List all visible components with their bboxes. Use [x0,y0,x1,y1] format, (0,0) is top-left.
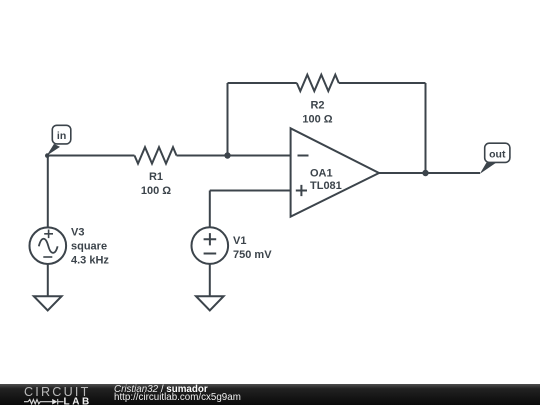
wire: V1 top vertical [209,191,211,228]
svg-text:100 Ω: 100 Ω [302,114,332,126]
source V1 plus polarity mark [204,233,217,245]
wire: non-inverting input horizontal from V1 top corner [210,190,291,192]
svg-text:R2: R2 [310,100,324,112]
wire: V3 bottom to ground [47,264,49,296]
source V1 circle body [192,227,229,264]
svg-text:square: square [71,241,107,253]
node A: junction of R1, op-amp inverting input and feedback [224,152,230,158]
wire: feedback top, left segment to R2 [228,82,297,84]
footer url line [114,393,241,403]
wire: R1 right to op-amp inverting input [177,155,291,157]
wire: input net, in flag anchor to R1 left [48,155,135,157]
svg-text:100 Ω: 100 Ω [141,185,171,197]
source V3 sine wave symbol [39,239,58,253]
svg-text:TL081: TL081 [310,180,342,192]
ground symbol under V1 [196,296,224,310]
wire: op-amp output to out flag anchor [379,172,480,174]
node flag "in": pointer tail [47,144,60,156]
source V3 plus polarity mark [44,230,53,239]
wire: input net vertical, in anchor down to V3 top [47,156,49,228]
svg-text:4.3 kHz: 4.3 kHz [71,255,109,267]
svg-text:OA1: OA1 [310,168,333,180]
source V1 minus polarity mark [204,253,217,255]
op-amp OA1 triangle body [291,128,379,216]
node flag "in": rounded box [52,125,71,144]
svg-text:LAB: LAB [64,396,92,405]
footer credit line [114,385,208,395]
source V3 minus polarity mark [43,256,52,258]
wire: feedback left vertical from node A up [227,83,229,156]
node flag "in": anchor dot [45,153,50,158]
CircuitLab footer logo [0,384,110,405]
wire: V1 bottom to ground [209,264,211,296]
node flag "out": pointer tail [480,162,497,174]
source V3 circle body [30,227,67,264]
wire: R2 right to feedback right corner [339,82,426,84]
resistor R1 [135,147,177,163]
svg-text:R1: R1 [149,171,163,183]
svg-text:V1: V1 [233,235,246,247]
op-amp OA1 inverting input minus symbol [298,155,309,157]
svg-text:V3: V3 [71,227,84,239]
resistor R2 [297,75,339,91]
wire: feedback right vertical down to output node B [425,83,427,173]
svg-text:out: out [489,148,506,160]
ground symbol under V3 [34,296,62,310]
svg-text:750 mV: 750 mV [233,249,272,261]
node flag "out": rounded box [485,143,510,162]
op-amp OA1 non-inverting input plus symbol [296,185,307,196]
svg-text:in: in [57,130,66,142]
node B: junction of op-amp output and feedback [422,170,428,176]
